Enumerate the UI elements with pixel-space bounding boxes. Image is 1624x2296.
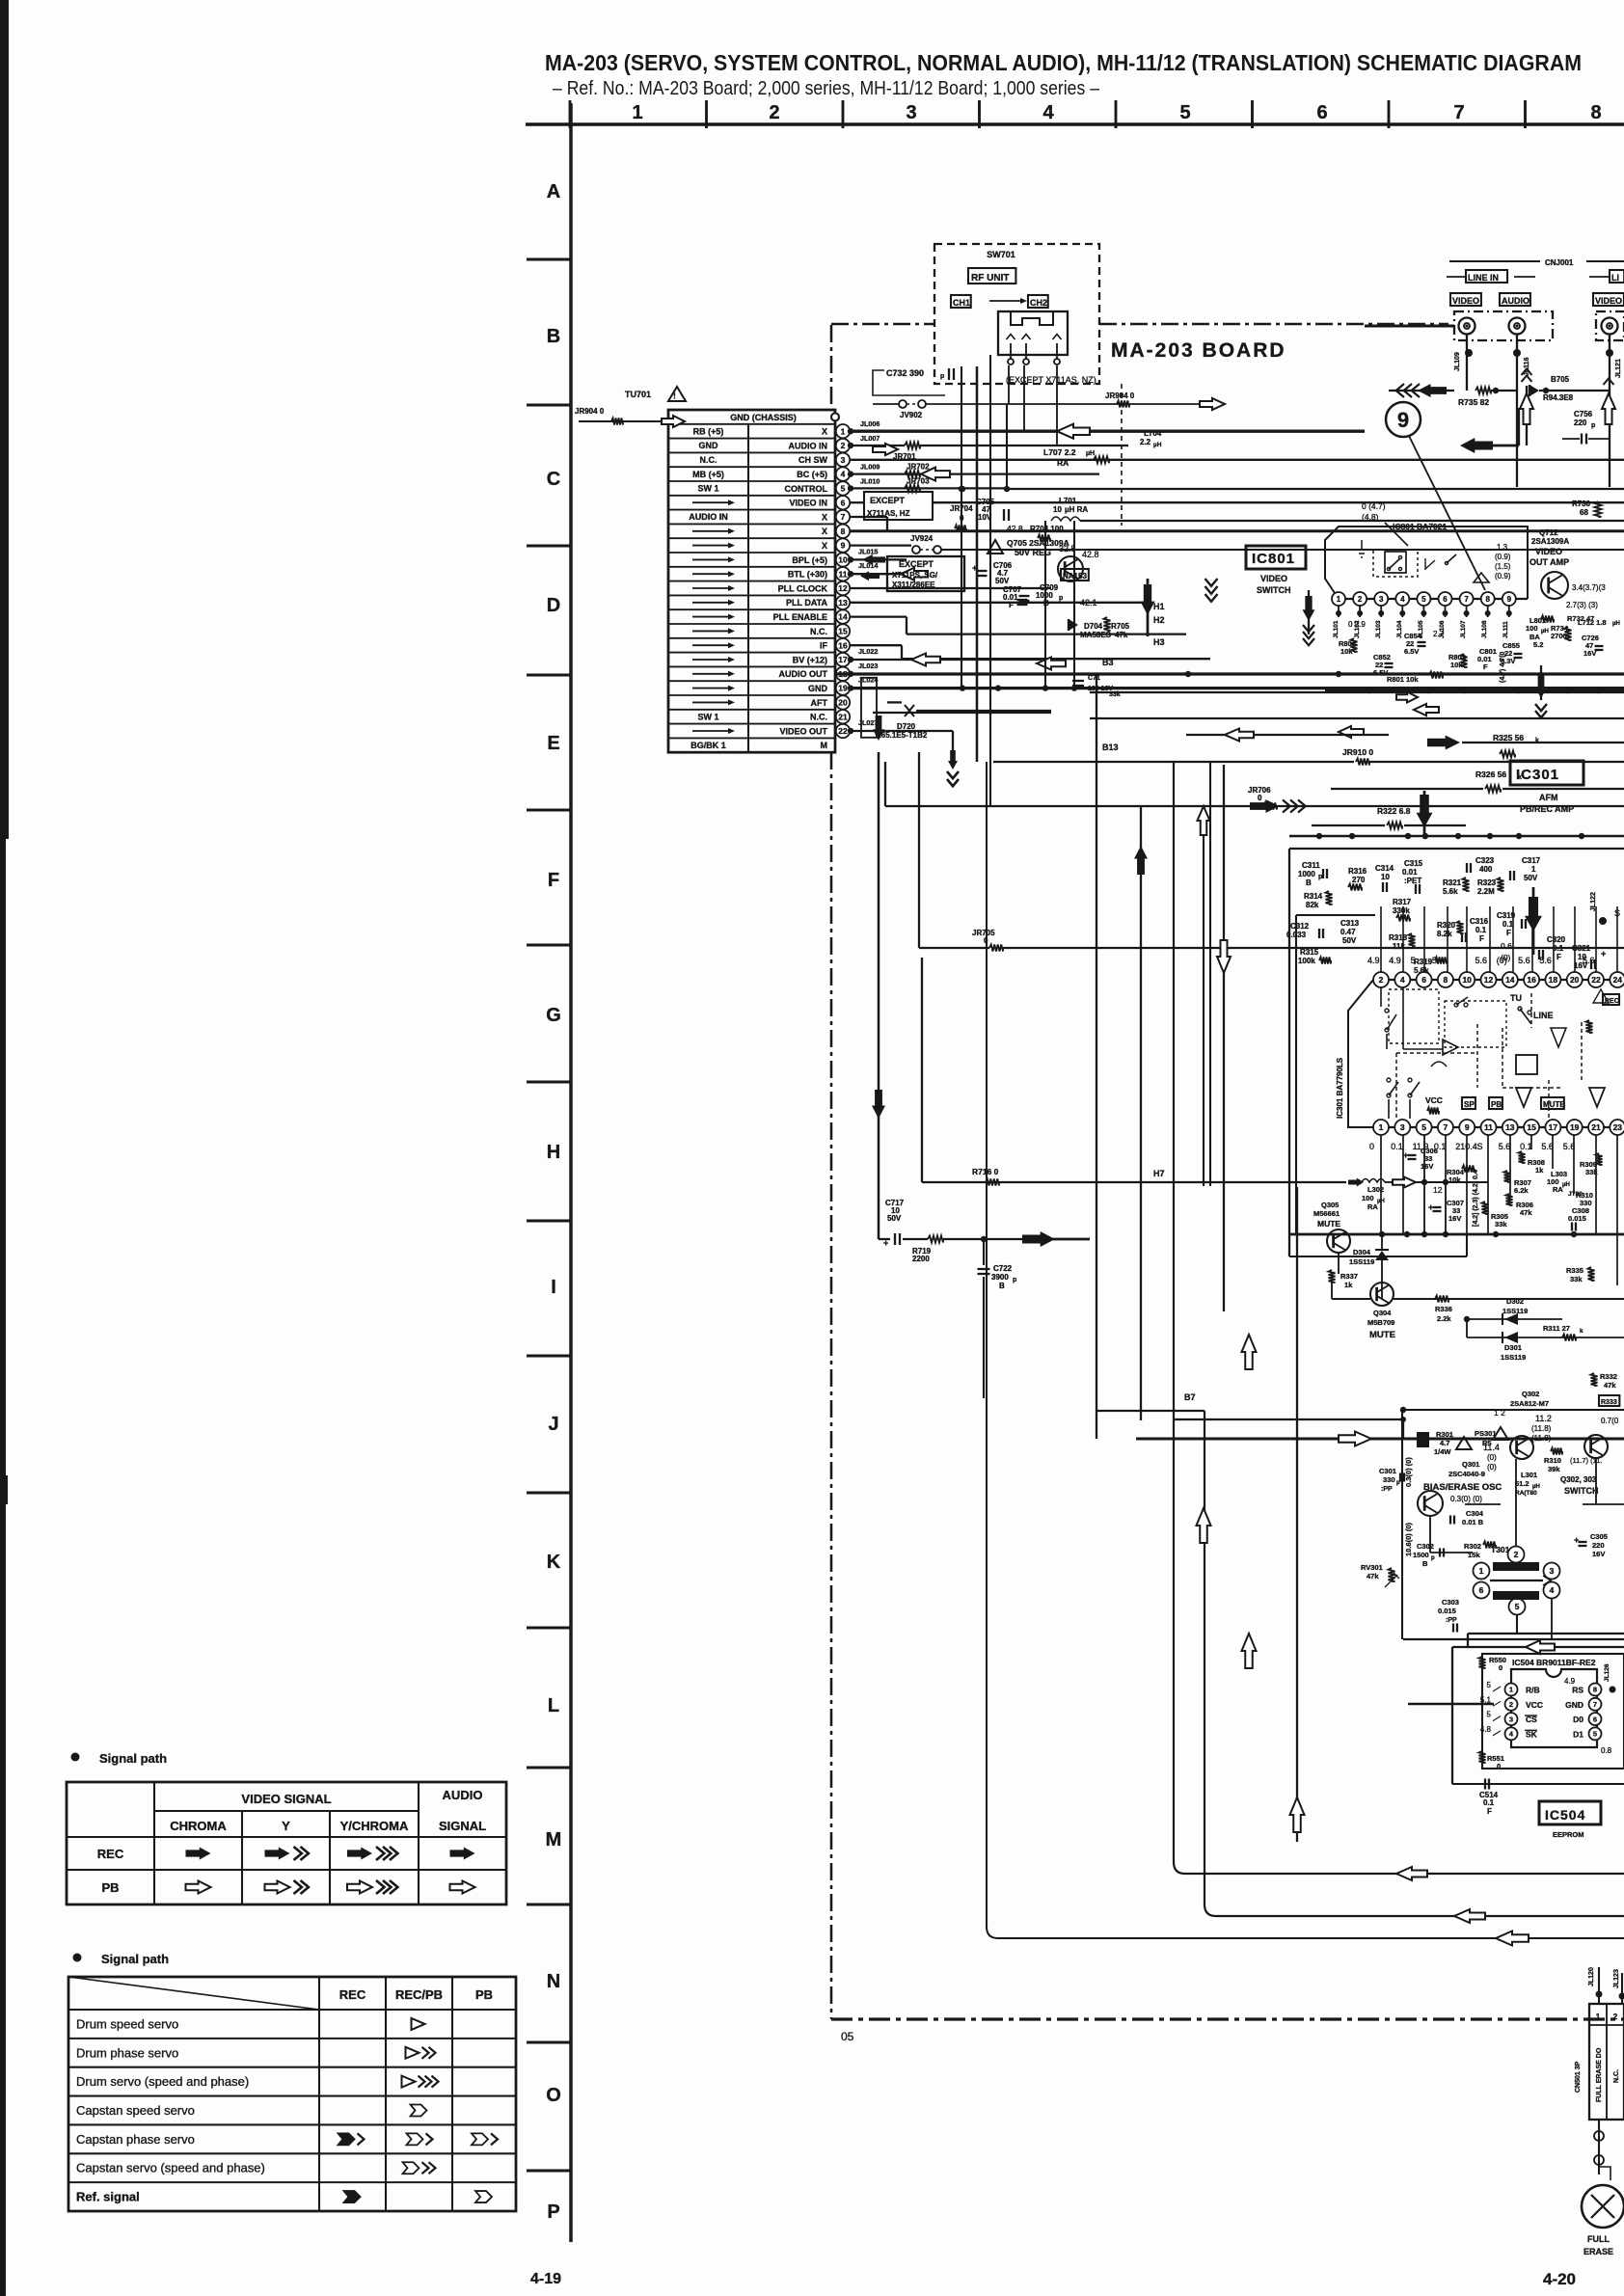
svg-text:JV902: JV902	[900, 411, 923, 419]
svg-text:0: 0	[1369, 1142, 1374, 1151]
node H1 H2 H3	[1153, 602, 1165, 647]
svg-text:6: 6	[1421, 975, 1426, 985]
resistor R704	[1007, 524, 1064, 542]
long vertical x1269	[1217, 765, 1231, 1311]
svg-text:JL010: JL010	[860, 476, 880, 485]
svg-text:L701: L701	[1059, 497, 1077, 505]
svg-text:0 (4.7): 0 (4.7)	[1362, 501, 1386, 511]
svg-text:0.47: 0.47	[1340, 928, 1356, 936]
resistor R310 capacitor C308	[1568, 1191, 1593, 1231]
svg-text:(0): (0)	[1497, 956, 1507, 965]
wire pin16 IF	[851, 645, 1210, 659]
svg-text:R311 27: R311 27	[1543, 1324, 1570, 1333]
svg-text:B705: B705	[1551, 375, 1570, 384]
svg-text:C304: C304	[1466, 1509, 1484, 1518]
svg-text:50V: 50V	[1342, 936, 1357, 945]
svg-text::PP: :PP	[1446, 1617, 1457, 1624]
svg-text:(0): (0)	[1487, 1463, 1497, 1472]
svg-text:0.1: 0.1	[1502, 920, 1514, 929]
svg-text:D720: D720	[897, 722, 916, 731]
except X711AS HZ box	[864, 492, 933, 520]
svg-text:R336: R336	[1435, 1305, 1452, 1313]
svg-text:H2: H2	[1153, 615, 1165, 625]
svg-text:Capstan speed servo: Capstan speed servo	[76, 2103, 195, 2118]
svg-text:FULL ERASE DO: FULL ERASE DO	[1596, 2047, 1603, 2102]
svg-text:JL024: JL024	[858, 676, 878, 685]
svg-text::PP: :PP	[1381, 1486, 1393, 1493]
svg-text:6: 6	[1593, 1715, 1597, 1723]
svg-text:2.7: 2.7	[1433, 630, 1445, 638]
resistor R326	[1331, 770, 1624, 793]
connector CN501	[1575, 2004, 1624, 2120]
svg-text:4-19: 4-19	[530, 2271, 561, 2287]
wire pin10 JL015	[848, 547, 907, 565]
IC801 label	[1246, 546, 1306, 595]
svg-text:1k: 1k	[1344, 1281, 1353, 1289]
svg-text:(11.7) (11.: (11.7) (11.	[1570, 1456, 1603, 1465]
svg-text:CHROMA: CHROMA	[170, 1819, 227, 1833]
svg-text:2.7(3) (3): 2.7(3) (3)	[1566, 601, 1598, 609]
svg-text:H7: H7	[1153, 1169, 1165, 1178]
svg-text:+: +	[1403, 1150, 1408, 1160]
svg-text:T301: T301	[1491, 1545, 1510, 1554]
note except X711AS NZ	[1006, 375, 1096, 385]
capacitor C709	[1017, 583, 1064, 608]
jumper JR706	[885, 762, 1624, 810]
svg-text:21: 21	[838, 712, 848, 721]
svg-text:16V: 16V	[1592, 1550, 1605, 1558]
dashed vertical from RF box	[961, 384, 1122, 526]
resistor R314	[1304, 891, 1333, 909]
svg-text:R302: R302	[1464, 1542, 1481, 1551]
svg-text:1000: 1000	[1298, 870, 1315, 878]
svg-text:R716 0: R716 0	[972, 1167, 999, 1176]
IC301 top rail	[1289, 833, 1624, 839]
wire corner y1987	[1204, 1411, 1624, 1923]
svg-text:k: k	[1580, 1328, 1583, 1335]
svg-text:C320: C320	[1547, 935, 1566, 944]
svg-text:D301: D301	[1504, 1343, 1522, 1352]
resistor R315	[1298, 948, 1331, 965]
svg-text:R801 10k: R801 10k	[1387, 675, 1419, 684]
capacitor C316	[1462, 917, 1489, 943]
svg-text:RA: RA	[1057, 458, 1069, 468]
big down arrow at IC301 top	[1417, 791, 1433, 839]
diode D302	[1464, 1297, 1562, 1325]
svg-text:5: 5	[1421, 595, 1426, 604]
svg-text:SW 1: SW 1	[697, 712, 718, 721]
svg-text:Q305: Q305	[1321, 1201, 1339, 1209]
resistor R310b	[1544, 1448, 1603, 1474]
svg-text:Y: Y	[282, 1819, 290, 1833]
IC301 pins top row	[1367, 956, 1624, 987]
svg-text:µH: µH	[1562, 1182, 1570, 1188]
svg-text:8: 8	[1485, 595, 1490, 604]
IC801 lower components row	[1333, 614, 1620, 684]
svg-text:EEPROM: EEPROM	[1553, 1830, 1584, 1839]
svg-text:C313: C313	[1340, 919, 1360, 928]
svg-text:C305: C305	[1590, 1532, 1608, 1541]
svg-text:7: 7	[1453, 102, 1464, 123]
inductor L704	[1140, 429, 1162, 448]
svg-text:(1.5): (1.5)	[1495, 562, 1511, 571]
svg-text:R319: R319	[1414, 958, 1433, 966]
svg-text:0: 0	[1258, 794, 1262, 802]
resistor R332	[1591, 1372, 1617, 1390]
svg-text:JL111: JL111	[1502, 621, 1509, 638]
svg-text:MB (+5): MB (+5)	[692, 470, 724, 479]
svg-text:9: 9	[841, 541, 846, 551]
bias area wires	[1403, 1504, 1624, 1704]
note 10.6 rotated	[1404, 1522, 1413, 1556]
svg-text:50V: 50V	[1524, 874, 1538, 882]
jumper JR904	[575, 407, 685, 427]
svg-text:9: 9	[1465, 1122, 1470, 1132]
svg-text:18: 18	[1549, 975, 1558, 985]
svg-text:8: 8	[1593, 1686, 1597, 1694]
svg-text:R321: R321	[1443, 878, 1462, 887]
resistor R337	[1329, 1270, 1371, 1299]
capacitor C514	[1452, 1779, 1624, 1817]
svg-text:0.1: 0.1	[1475, 926, 1487, 934]
node B3	[1102, 658, 1114, 667]
svg-text:JL103: JL103	[1375, 620, 1382, 638]
connector P5301	[1417, 1427, 1508, 1456]
svg-text:47k: 47k	[1115, 631, 1128, 639]
IC801 pins 1-9	[1332, 592, 1516, 617]
svg-text:R735 82: R735 82	[1458, 397, 1489, 407]
svg-text:PLL ENABLE: PLL ENABLE	[773, 612, 827, 622]
svg-text:5.6: 5.6	[1499, 1142, 1511, 1151]
svg-text:JL121: JL121	[1615, 359, 1622, 378]
svg-text:1: 1	[1337, 595, 1341, 604]
wire pin14 PLL ENABLE	[851, 617, 1186, 635]
resistor R304	[1433, 1166, 1475, 1196]
svg-text:R/B: R/B	[1526, 1686, 1540, 1695]
svg-text:MUTE: MUTE	[1369, 1330, 1395, 1340]
wire JR705 left leg	[921, 958, 923, 1182]
svg-text:VCC: VCC	[1526, 1700, 1543, 1710]
svg-text:FULL: FULL	[1587, 2234, 1610, 2244]
svg-text:(11.8): (11.8)	[1531, 1434, 1552, 1443]
svg-text:MA-203 (SERVO, SYSTEM CONTROL,: MA-203 (SERVO, SYSTEM CONTROL, NORMAL AU…	[545, 50, 1582, 75]
svg-text:X: X	[822, 427, 827, 437]
svg-text:M: M	[546, 1829, 562, 1850]
resistor R306	[1506, 1194, 1533, 1217]
svg-text:5.1: 5.1	[1480, 1695, 1492, 1704]
svg-text:15: 15	[1527, 1122, 1536, 1132]
capacitor C706	[972, 561, 1013, 585]
svg-text:MUTE: MUTE	[1317, 1219, 1340, 1229]
svg-text:SW 1: SW 1	[697, 484, 718, 494]
svg-text:JR910 0: JR910 0	[1342, 747, 1373, 757]
svg-text:4: 4	[1042, 102, 1054, 123]
svg-text:0.1: 0.1	[1391, 1142, 1403, 1151]
svg-text:(EXCEPT X711AS, NZ): (EXCEPT X711AS, NZ)	[1006, 375, 1096, 385]
svg-text:400: 400	[1479, 865, 1493, 874]
wire pin22 JL027	[848, 718, 959, 786]
big down arrow left of IC801	[1141, 579, 1218, 636]
svg-text:C312: C312	[1290, 922, 1310, 931]
svg-text:1 2: 1 2	[1494, 1408, 1505, 1418]
IC301 inner box edge	[1296, 915, 1375, 1234]
open arrow up video out	[1602, 378, 1615, 424]
svg-text:JL014: JL014	[858, 561, 878, 570]
capacitor C307	[1428, 1182, 1464, 1234]
svg-text:R550: R550	[1489, 1656, 1506, 1664]
svg-text:0: 0	[1497, 1762, 1501, 1770]
IC504 BR9011BF-RE2 heading	[1512, 1658, 1596, 1667]
svg-text:11: 11	[1484, 1122, 1493, 1132]
except X711PS box	[887, 556, 964, 591]
capacitor C312	[1286, 922, 1323, 939]
svg-text:330k: 330k	[1393, 906, 1410, 915]
svg-text:H3: H3	[1153, 637, 1165, 647]
svg-text:VIDEO SIGNAL: VIDEO SIGNAL	[241, 1792, 331, 1806]
svg-text:33k: 33k	[1495, 1220, 1507, 1229]
arrow down B13	[1535, 665, 1547, 717]
capacitor C320	[1539, 935, 1566, 961]
svg-text:19: 19	[838, 684, 848, 693]
bus y699	[835, 671, 1624, 677]
svg-text:33k: 33k	[1585, 1168, 1598, 1176]
svg-text:D302: D302	[1506, 1297, 1524, 1306]
svg-text:3: 3	[1550, 1566, 1555, 1576]
svg-text:BTL (+30): BTL (+30)	[788, 570, 827, 580]
transistor Q302	[1510, 1436, 1533, 1551]
svg-text:N.C.: N.C.	[810, 627, 827, 636]
resistor R320	[1437, 921, 1464, 938]
svg-text:Q712: Q712	[1539, 528, 1558, 537]
connector TU701 table	[668, 410, 835, 752]
svg-text:2: 2	[1514, 1550, 1519, 1559]
resistor R311	[1467, 1319, 1624, 1341]
svg-text:14: 14	[838, 612, 848, 622]
wire H7 R716 L302	[922, 1167, 1346, 1186]
RF pin wires down	[1009, 365, 1057, 446]
svg-text:E: E	[547, 733, 559, 754]
svg-text:C323: C323	[1475, 856, 1495, 865]
svg-text:MUTE: MUTE	[1543, 1100, 1565, 1109]
svg-text:JR904 0: JR904 0	[1105, 392, 1135, 400]
MA-203 board outline dash-dot left vertical	[830, 325, 833, 2019]
wire pair x1248 x1255	[1198, 762, 1211, 1186]
svg-text:2200: 2200	[912, 1255, 930, 1263]
IC801 BA7021 text	[1393, 522, 1448, 531]
svg-text:2SA812-M7: 2SA812-M7	[1510, 1399, 1549, 1408]
svg-text:BG/BK 1: BG/BK 1	[690, 741, 726, 750]
svg-text:9: 9	[1507, 595, 1512, 604]
svg-text:IC801: IC801	[1252, 551, 1295, 567]
svg-text:EXCEPT: EXCEPT	[870, 496, 906, 505]
svg-text:3: 3	[841, 455, 846, 465]
svg-text:(0): (0)	[1487, 1453, 1497, 1462]
wire vertical x997	[959, 366, 964, 689]
svg-text:JL107: JL107	[1460, 620, 1467, 638]
svg-text:AFM: AFM	[1539, 793, 1558, 802]
svg-text:D304: D304	[1353, 1248, 1371, 1256]
svg-text:100k: 100k	[1298, 957, 1315, 965]
svg-text::PET: :PET	[1404, 877, 1421, 885]
svg-text:SWITCH: SWITCH	[1257, 585, 1291, 595]
svg-text:5: 5	[1179, 102, 1190, 123]
wire pin18 JL023	[848, 662, 879, 738]
svg-text:2: 2	[1379, 975, 1384, 985]
resistor R322	[1312, 806, 1466, 829]
svg-text:4: 4	[1400, 975, 1405, 985]
svg-text:CH2: CH2	[1030, 298, 1047, 308]
svg-text:RF UNIT: RF UNIT	[971, 273, 1009, 284]
svg-text:1500: 1500	[1413, 1551, 1429, 1559]
svg-text:+: +	[1601, 949, 1606, 959]
svg-text:N: N	[547, 1971, 560, 1992]
svg-text:µH: µH	[1086, 450, 1095, 457]
svg-text:L: L	[548, 1695, 559, 1716]
inductor L301	[1515, 1471, 1540, 1497]
svg-text:5: 5	[841, 483, 846, 493]
svg-text:4.9: 4.9	[1367, 956, 1380, 965]
svg-text:p: p	[1013, 1277, 1016, 1283]
svg-text:R301: R301	[1436, 1430, 1453, 1439]
svg-text:R730: R730	[1572, 500, 1591, 508]
svg-text:R315: R315	[1300, 948, 1319, 957]
svg-text:M56661: M56661	[1313, 1209, 1340, 1218]
IC504 pins left	[1480, 1681, 1543, 1740]
note voltages rotated	[1473, 1170, 1479, 1227]
svg-text:3: 3	[1379, 595, 1384, 604]
svg-text:H: H	[547, 1142, 560, 1163]
svg-text:51.2: 51.2	[1515, 1479, 1529, 1488]
op-amp U IC801 body	[1325, 527, 1528, 599]
svg-text:0.1: 0.1	[1520, 1142, 1532, 1151]
wire pin2 JL007 JR701	[848, 434, 1128, 461]
svg-text:2: 2	[1358, 595, 1363, 604]
regulator R703 NA153 boxed	[1061, 569, 1097, 608]
svg-text:OUT AMP: OUT AMP	[1529, 557, 1569, 567]
capacitor C719	[1072, 675, 1121, 698]
svg-text:S: S	[1477, 1142, 1483, 1151]
svg-text:0: 0	[1499, 1663, 1502, 1672]
diode D720	[876, 702, 1051, 740]
svg-text:D: D	[547, 595, 560, 616]
svg-text:0.6: 0.6	[1501, 941, 1512, 951]
capacitor C306	[1403, 1135, 1438, 1234]
transistor Q304 mute	[1367, 1283, 1395, 1340]
svg-text:4.7: 4.7	[1440, 1439, 1449, 1447]
svg-text:0.015: 0.015	[1438, 1607, 1456, 1615]
svg-text:R333: R333	[1601, 1399, 1617, 1406]
svg-text:6: 6	[841, 498, 846, 507]
svg-text:20: 20	[838, 697, 848, 707]
svg-text:IC504: IC504	[1545, 1807, 1585, 1823]
svg-text:µH RA: µH RA	[1065, 505, 1088, 514]
svg-text:C722: C722	[993, 1264, 1013, 1273]
wire vertical x1114	[1073, 521, 1075, 689]
transistor Q302 label	[1400, 1390, 1624, 1639]
svg-text:p: p	[1431, 1555, 1435, 1561]
svg-text:Capstan servo (speed and phase: Capstan servo (speed and phase)	[76, 2161, 265, 2175]
svg-text:AUDIO IN: AUDIO IN	[789, 441, 828, 450]
open arrow up right edge	[1520, 368, 1533, 446]
RCA jack VIDEO out	[1602, 318, 1618, 335]
resistor R336	[1394, 1296, 1624, 1324]
resistor R305	[1482, 1202, 1508, 1229]
svg-text:16V: 16V	[1583, 649, 1596, 658]
long vertical x1137	[1096, 674, 1097, 1439]
thick wire B7 bus	[1136, 1417, 1624, 1446]
svg-text:RA(T80: RA(T80	[1515, 1490, 1537, 1497]
jumper JV902	[873, 392, 1225, 419]
svg-text:JR904 0: JR904 0	[575, 407, 605, 416]
jumper JL120 JL123	[1588, 1967, 1624, 2004]
diode D304	[1349, 1234, 1389, 1299]
svg-text:2: 2	[1613, 2012, 1618, 2021]
svg-text:M: M	[821, 741, 828, 750]
svg-text:22: 22	[1591, 975, 1601, 985]
svg-text:42.8: 42.8	[1007, 524, 1023, 533]
VIDEO jack label 2	[1593, 293, 1624, 306]
resistor R730	[1572, 500, 1602, 517]
svg-text:JL006: JL006	[860, 419, 880, 428]
svg-text:G: G	[546, 1005, 561, 1026]
svg-text:10: 10	[1462, 975, 1472, 985]
svg-text:C311: C311	[1302, 861, 1320, 870]
svg-text:Y/CHROMA: Y/CHROMA	[340, 1819, 409, 1833]
wire pin8 bus	[851, 529, 1624, 532]
label JR704	[950, 504, 973, 532]
svg-text:D1: D1	[1573, 1729, 1583, 1739]
svg-text:Q304: Q304	[1373, 1309, 1392, 1317]
svg-text:5: 5	[1593, 1730, 1597, 1739]
capacitor C301	[1379, 1467, 1404, 1493]
page title	[545, 50, 1582, 99]
svg-text:p: p	[1059, 595, 1063, 602]
svg-text:Drum speed servo: Drum speed servo	[76, 2016, 178, 2031]
voltages bias	[1483, 1408, 1552, 1472]
svg-text:LINE: LINE	[1533, 1011, 1554, 1020]
svg-text:R310: R310	[1544, 1456, 1561, 1465]
svg-text:16: 16	[1527, 975, 1536, 985]
svg-text:10.6(0) (0): 10.6(0) (0)	[1404, 1522, 1413, 1556]
svg-text:4.8: 4.8	[1480, 1725, 1492, 1734]
callout 9	[1386, 402, 1485, 590]
svg-text:0.8: 0.8	[1601, 1746, 1612, 1755]
node B7 wire	[1096, 1392, 1204, 1411]
wire pin12 PLL CLOCK	[851, 587, 1051, 589]
svg-text:11.4: 11.4	[1483, 1443, 1500, 1452]
svg-text:1SS119: 1SS119	[1501, 1353, 1526, 1362]
svg-text:L707 2.2: L707 2.2	[1043, 447, 1076, 457]
svg-text:VIDEO: VIDEO	[1595, 296, 1622, 306]
svg-text:SW701: SW701	[987, 250, 1015, 259]
svg-text:Q301: Q301	[1462, 1460, 1479, 1469]
svg-text:SP: SP	[1464, 1100, 1475, 1109]
svg-text:16: 16	[838, 640, 848, 650]
svg-text:14: 14	[1505, 975, 1515, 985]
IC301 body outline	[1336, 980, 1373, 1127]
svg-text:12: 12	[1484, 975, 1494, 985]
capacitor C305	[1574, 1532, 1608, 1558]
svg-text:C302: C302	[1417, 1542, 1434, 1551]
svg-text:IC301 BA7790LS: IC301 BA7790LS	[1336, 1057, 1344, 1119]
svg-text:2: 2	[1509, 1700, 1513, 1709]
svg-text:R704 100: R704 100	[1030, 525, 1064, 533]
svg-text:RA: RA	[1367, 1202, 1378, 1211]
svg-text:VIDEO: VIDEO	[1260, 574, 1287, 583]
inductor L303	[1547, 1170, 1583, 1198]
transistor Q712 video out amp	[1529, 528, 1606, 609]
svg-text:22: 22	[838, 726, 848, 736]
